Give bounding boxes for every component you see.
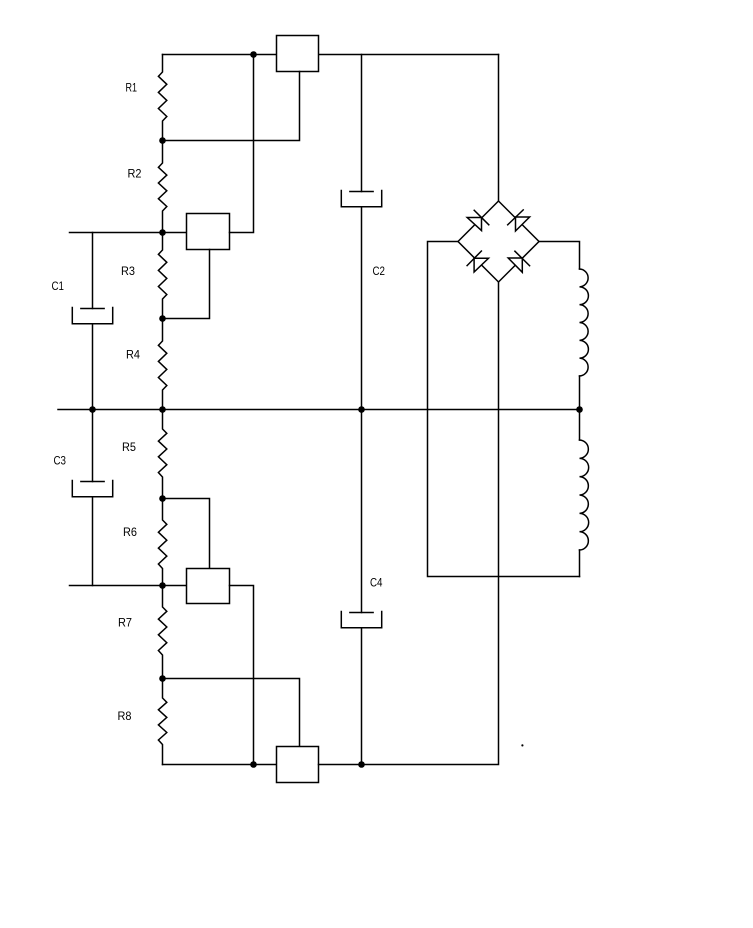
svg-text:C3: C3 bbox=[54, 454, 67, 468]
svg-text:R7: R7 bbox=[118, 616, 132, 630]
wire R7/R8 node to U4 top lead bbox=[163, 679, 300, 747]
box component U4 bbox=[277, 747, 319, 783]
resistor R2 bbox=[158, 141, 166, 233]
node junction dot R1/R2 bbox=[159, 137, 166, 144]
wire center horizontal rail bbox=[58, 409, 580, 411]
node junction dot R7/R8 bbox=[159, 675, 166, 682]
node junction dot rail/R4R5 bbox=[159, 406, 166, 413]
box component U1 bbox=[277, 36, 319, 72]
resistor R8 bbox=[158, 679, 166, 765]
node junction dot R2/R3 bbox=[159, 229, 166, 236]
diode D2 top-right bbox=[508, 210, 530, 231]
diode bridge diamond sides bbox=[458, 201, 539, 282]
node junction dot rail/C2C4 bbox=[358, 406, 365, 413]
svg-text:R8: R8 bbox=[118, 709, 132, 723]
resistor R5 bbox=[158, 410, 166, 499]
node junction dot bottom rail x=253 bbox=[250, 761, 257, 768]
svg-text:R4: R4 bbox=[126, 348, 140, 362]
capacitor C2 bbox=[341, 55, 381, 410]
stray ink dot bbox=[521, 744, 523, 746]
wire L2 bottom to bottom loop bbox=[579, 550, 581, 577]
node junction dot R5/R6 bbox=[159, 495, 166, 502]
wire top rail left segment bbox=[163, 54, 277, 56]
wire bottom rail right segment up to bridge bottom bbox=[319, 282, 499, 765]
node junction dot R3/R4 bbox=[159, 315, 166, 322]
wire U2 right side up to top rail bbox=[230, 55, 254, 233]
wire U3 right side down to bottom rail bbox=[230, 586, 254, 765]
wire U2 bottom lead to R3/R4 node bbox=[163, 250, 210, 319]
wire bridge left vertex to left loop bbox=[428, 242, 580, 577]
capacitor C3 bbox=[72, 410, 112, 586]
wire U1 bottom lead to R1/R2 node bbox=[163, 72, 300, 141]
resistor R1 bbox=[158, 55, 166, 141]
svg-text:C4: C4 bbox=[370, 576, 383, 590]
wire top rail right segment bbox=[319, 54, 499, 56]
diode D1 top-left bbox=[467, 210, 489, 230]
node junction dot at top rail x=253 bbox=[250, 51, 257, 58]
box component U3 bbox=[187, 569, 230, 604]
svg-text:C2: C2 bbox=[373, 264, 386, 278]
wire bottom rail left segment bbox=[163, 764, 277, 766]
wire bridge top lead bbox=[498, 55, 500, 202]
node junction dot rail/C1C3 bbox=[89, 406, 96, 413]
svg-text:R1: R1 bbox=[126, 81, 138, 95]
svg-text:R2: R2 bbox=[128, 167, 142, 181]
wire bridge right vertex to inductor L1 bbox=[539, 242, 580, 270]
wire L1 bottom to rail dot bbox=[579, 376, 581, 410]
capacitor C4 bbox=[341, 410, 381, 765]
diode D4 bottom-right bbox=[508, 251, 529, 272]
capacitor C1 bbox=[72, 233, 112, 410]
box component U2 bbox=[187, 214, 230, 250]
svg-text:R3: R3 bbox=[121, 264, 135, 278]
node junction dot bottom rail/C4 bbox=[358, 761, 365, 768]
wire left stub at y=232 bbox=[70, 232, 187, 234]
wire rail dot to L2 top bbox=[579, 410, 581, 441]
inductor L1 bbox=[580, 269, 589, 376]
svg-text:C1: C1 bbox=[52, 279, 65, 293]
svg-text:R5: R5 bbox=[122, 440, 136, 454]
svg-text:R6: R6 bbox=[123, 525, 137, 539]
resistor R3 bbox=[158, 233, 166, 319]
resistor R7 bbox=[158, 586, 166, 679]
diode D3 bottom-left bbox=[467, 251, 488, 272]
node junction dot rail/inductors bbox=[576, 406, 583, 413]
node junction dot R6/R7 bbox=[159, 582, 166, 589]
resistor R6 bbox=[158, 499, 166, 586]
wire R5/R6 node to U3 top lead bbox=[163, 499, 210, 569]
resistor R4 bbox=[158, 319, 166, 410]
inductor L2 bbox=[580, 440, 589, 550]
wire left stub at y=585 bbox=[70, 585, 187, 587]
